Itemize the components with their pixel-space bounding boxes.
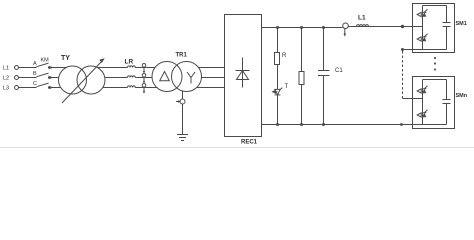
faint page rule (0, 147, 474, 149)
transformer TR1 secondary winding (172, 62, 202, 92)
ellipsis dots between modules (434, 57, 436, 59)
wire TR1 to REC1 row1 (199, 67, 225, 69)
bottom rail arrow into SMn (401, 123, 405, 126)
wire TY to LR row1 (97, 67, 127, 69)
TR1 delta symbol (160, 72, 170, 81)
inductor L1 coil (357, 25, 369, 27)
wire switch B to TY with arrow (48, 77, 59, 79)
wire TY to LR row3 (103, 87, 128, 89)
capacitor C1 branch top (323, 28, 325, 71)
junction dots top rail (276, 26, 279, 29)
resistor R (275, 53, 280, 65)
svg-text:L1: L1 (3, 66, 9, 72)
current sensor row2 (142, 74, 146, 78)
SM1 capacitor (446, 6, 448, 23)
dashed link SM1 to SMn (402, 51, 404, 99)
SMn upper IGBT cell (417, 89, 421, 93)
SM1 bottom bus (403, 49, 447, 51)
wire sensor to ground (182, 104, 184, 135)
svg-text:KM: KM (41, 58, 50, 64)
ground (177, 134, 188, 136)
capacitor C1 (318, 70, 330, 72)
inductor LR coil row3 (128, 86, 136, 88)
wire LR to sensor row3 (135, 87, 142, 89)
capacitor C1 branch bottom (323, 76, 325, 125)
wire sensor to TR1 row2 (135, 77, 152, 79)
switch B blade (37, 73, 49, 77)
wire into SM1 midpoint (413, 26, 423, 28)
terminal L2 (15, 76, 19, 80)
bleeder branch wire top (301, 28, 303, 72)
svg-text:A: A (33, 61, 37, 67)
inductor LR coil row1 (128, 66, 136, 68)
svg-text:T: T (285, 84, 289, 90)
SM1 bridge (423, 5, 447, 7)
terminal L1 (15, 66, 19, 70)
svg-text:SM1: SM1 (456, 21, 467, 27)
SMn lower IGBT cell (417, 113, 421, 117)
SMn capacitor (446, 80, 448, 100)
switch C blade (37, 83, 49, 87)
submodule SMn box (413, 77, 455, 129)
wire LR to sensor row1 (135, 67, 142, 69)
TR1 wye symbol (187, 72, 195, 84)
wire L2 to switch B (19, 77, 37, 79)
SM1 bottom terminal dot (401, 48, 404, 51)
wire sensor to TR1 row3 (135, 87, 157, 89)
SM1 top terminal dot (401, 25, 404, 28)
current sensor row1 (142, 64, 146, 68)
svg-text:L3: L3 (3, 86, 9, 92)
SM1 upper IGBT cell (417, 12, 421, 16)
TR1 neutral wire down (182, 91, 184, 99)
bleeder wire bottom (301, 85, 303, 125)
junction dots bottom rail (276, 123, 279, 126)
autotransformer TY right winding (77, 66, 105, 94)
wire T to bottom rail (277, 95, 279, 125)
wire sensor to TR1 row1 (135, 67, 155, 69)
svg-text:TY: TY (61, 55, 70, 62)
svg-text:C1: C1 (335, 68, 343, 74)
TY variable arrow (62, 61, 102, 103)
svg-text:TR1: TR1 (176, 53, 188, 59)
svg-text:C: C (33, 81, 37, 87)
svg-text:L1: L1 (358, 15, 366, 22)
rectifier REC1 box (225, 15, 262, 137)
svg-text:L2: L2 (3, 76, 9, 82)
wire TR1 to REC1 row2 (202, 77, 225, 79)
wire L3 to switch C (19, 87, 37, 89)
wire switch A to TY with arrow (48, 67, 67, 69)
autotransformer TY left winding (59, 66, 87, 94)
wire LR to sensor row2 (135, 77, 142, 79)
rail current sensor (343, 23, 349, 29)
svg-text:SMn: SMn (456, 93, 468, 99)
transformer TR1 primary winding (152, 62, 182, 92)
DC top rail (262, 27, 343, 29)
inductor LR coil row2 (128, 76, 136, 78)
wire switch C to TY with arrow (48, 87, 61, 89)
terminal L3 (15, 86, 19, 90)
switch A blade (37, 63, 49, 67)
neutral current sensor (180, 99, 185, 104)
current sensor row3 (142, 84, 146, 88)
svg-text:LR: LR (125, 59, 134, 66)
DC bottom rail (262, 124, 447, 126)
svg-text:B: B (33, 71, 37, 77)
wire R to T (277, 65, 279, 90)
svg-text:R: R (282, 53, 287, 59)
REC1 diode (242, 58, 244, 88)
submodule SM1 box (413, 4, 455, 53)
SMn bridge (423, 79, 447, 81)
wire L1 to switch A (19, 67, 37, 69)
SM1 lower IGBT cell (417, 37, 421, 41)
bleeder resistor (299, 72, 304, 85)
brake branch wire top (277, 28, 279, 53)
svg-text:REC1: REC1 (241, 140, 258, 146)
wire TR1 to REC1 row3 (197, 87, 225, 89)
wire TY to LR row2 (105, 77, 128, 79)
switch T (chopper) (271, 90, 276, 94)
